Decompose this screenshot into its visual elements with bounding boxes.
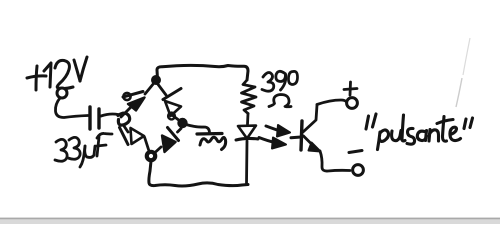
wire arm L to B <box>124 126 149 151</box>
node R bridge AC right <box>178 119 186 127</box>
diode D2 bridge upper-right <box>163 89 181 120</box>
label 390 <box>262 71 298 91</box>
wire Q1 collector to plus terminal <box>317 100 347 105</box>
label 33uF <box>55 133 112 167</box>
LED light arrows <box>259 125 301 149</box>
label ohm symbol <box>269 95 291 107</box>
node L bridge AC input left <box>118 113 130 125</box>
wire Q1 emitter to minus terminal <box>320 151 350 171</box>
LED D5 <box>236 114 258 185</box>
node B bridge DC minus <box>147 152 155 160</box>
node T bridge DC plus <box>152 76 160 84</box>
diode D1 bridge upper-left <box>123 92 145 111</box>
terminal minus <box>353 165 364 176</box>
wire J1 to C1 <box>55 98 88 118</box>
terminal J1 +12V input <box>57 88 67 98</box>
ground <box>197 134 226 150</box>
decorative page bottom edge + faint scratch (unlabeled, placed before first element label) <box>0 218 500 220</box>
wire arm B to R <box>155 129 181 153</box>
diode D4 bridge lower-right <box>162 128 179 153</box>
label minus sign <box>349 151 362 153</box>
wire top rail T to R1 <box>157 65 248 80</box>
phototransistor Q1 <box>301 105 321 152</box>
wire arm L to T <box>121 83 154 117</box>
wire node R to ground <box>186 125 210 134</box>
diode D3 bridge lower-left <box>120 128 145 145</box>
label +12V <box>27 57 87 90</box>
label plus sign <box>344 82 357 95</box>
terminal plus <box>347 98 358 109</box>
wire bottom rail B to LED <box>149 161 248 186</box>
capacitor C1 <box>90 107 99 129</box>
wire C1 to bridge left node <box>101 114 118 116</box>
resistor R1 <box>242 80 257 114</box>
label pulsante <box>366 114 473 150</box>
wire arm T to R <box>157 83 180 121</box>
